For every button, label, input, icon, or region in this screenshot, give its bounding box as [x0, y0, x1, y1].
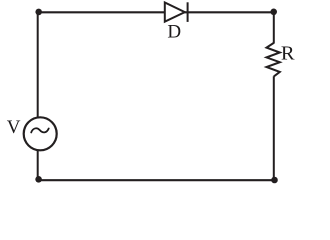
diode D triangle (anode)	[165, 3, 185, 22]
wire right upper segment (top-right node to resistor top)	[273, 11, 275, 44]
resistor R zigzag	[267, 43, 280, 77]
voltage source sine tilde	[31, 128, 49, 132]
wire top-right segment (diode cathode to top-right node)	[184, 11, 275, 13]
wire top-left segment (top-left node to diode anode)	[38, 11, 165, 13]
svg-text:D: D	[167, 22, 181, 43]
voltage source V circle	[24, 117, 57, 150]
wire right lower segment (resistor bottom to bottom-right node)	[273, 76, 275, 181]
node top-right junction dot	[270, 9, 277, 16]
wire bottom segment	[38, 179, 275, 181]
node top-left junction dot	[35, 9, 42, 16]
diode D cathode bar	[187, 2, 189, 22]
wire left lower segment (source bottom to bottom-left node)	[37, 150, 39, 180]
svg-text:R: R	[281, 43, 295, 65]
node bottom-right junction dot	[271, 177, 278, 184]
wire left upper segment (top-left node to source top)	[37, 11, 39, 118]
node bottom-left junction dot	[35, 176, 42, 183]
svg-text:V: V	[7, 117, 21, 138]
